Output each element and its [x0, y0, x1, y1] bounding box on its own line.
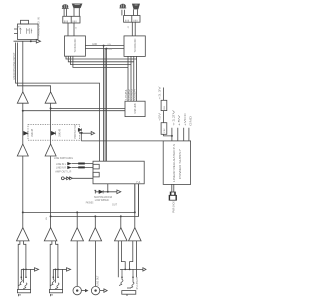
svg-text:MICROPHONE INPUT: MICROPHONE INPUT	[12, 52, 16, 79]
svg-text:LINE IN R: LINE IN R	[56, 167, 66, 170]
svg-text:OUT: OUT	[112, 203, 118, 206]
svg-text:USB3: USB3	[132, 88, 134, 100]
svg-text:+VCC: +VCC	[183, 113, 187, 126]
svg-text:AMP OUT L R: AMP OUT L R	[55, 169, 71, 173]
svg-text:USB4: USB4	[135, 88, 137, 100]
svg-text:+5V: +5V	[158, 113, 162, 122]
svg-text:LINE SWITCHING: LINE SWITCHING	[54, 156, 73, 160]
svg-text:1N4148: 1N4148	[31, 128, 34, 137]
svg-text:MIC: MIC	[17, 26, 21, 28]
svg-text:LINE OUT: LINE OUT	[97, 275, 100, 285]
svg-text:PHONES: PHONES	[86, 201, 94, 205]
svg-text:7-4: 7-4	[136, 180, 141, 184]
svg-text:I2S: I2S	[108, 44, 112, 46]
svg-text:LINE IN L: LINE IN L	[56, 163, 67, 166]
svg-text:PJ-3523: PJ-3523	[136, 277, 139, 290]
svg-text:1N4148: 1N4148	[59, 128, 62, 137]
svg-text:GND: GND	[188, 116, 192, 126]
svg-text:USB HUB: USB HUB	[133, 103, 137, 113]
svg-text:TLV320ADC: TLV320ADC	[133, 39, 137, 53]
svg-text:TLV320ADC: TLV320ADC	[73, 39, 77, 53]
svg-text:LOW IMPED.: LOW IMPED.	[95, 199, 110, 202]
svg-text:LINEAR REGULATED P-S: LINEAR REGULATED P-S	[172, 144, 176, 182]
svg-text:PWR JACK: PWR JACK	[172, 201, 175, 213]
svg-text:CLK: CLK	[108, 49, 113, 51]
svg-text:+3.3V: +3.3V	[158, 87, 162, 100]
svg-text:USB2: USB2	[129, 88, 131, 100]
svg-text:GND: GND	[92, 44, 97, 46]
svg-text:PROTECT DX: PROTECT DX	[74, 124, 77, 138]
svg-text:USB1: USB1	[126, 88, 128, 100]
svg-text:POWER SUPPLY: POWER SUPPLY	[178, 149, 182, 179]
svg-text:+5V: +5V	[177, 115, 181, 126]
svg-text:AUDIO JACK IN: AUDIO JACK IN	[37, 17, 41, 35]
svg-text:LN: LN	[46, 217, 48, 220]
svg-text:+12V: +12V	[171, 110, 175, 126]
